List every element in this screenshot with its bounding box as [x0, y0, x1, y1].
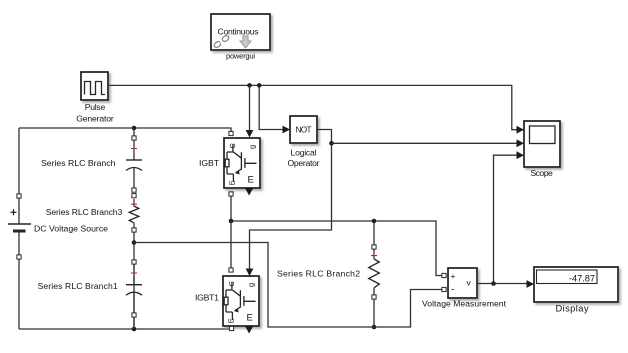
- svg-text:Series RLC Branch1: Series RLC Branch1: [38, 281, 118, 291]
- Voltage Measurement block: [448, 268, 477, 298]
- arrowhead IGBT m output: [245, 189, 253, 196]
- junction top of Series RLC Branch: [132, 126, 137, 131]
- arrowhead scope in3: [517, 151, 525, 159]
- svg-text:NOT: NOT: [296, 125, 312, 134]
- port square IGBT emitter: [229, 192, 233, 196]
- svg-text:Series RLC Branch2: Series RLC Branch2: [277, 268, 360, 278]
- svg-text:Pulse: Pulse: [85, 102, 106, 112]
- svg-text:+: +: [451, 271, 456, 281]
- port square DC source -: [17, 255, 21, 259]
- wire pulse generator output to scope in1: [108, 85, 517, 129]
- wire VM output to scope in3: [494, 155, 518, 283]
- port square IGBT1 emitter: [229, 326, 233, 330]
- wire left rail upper: [18, 128, 20, 194]
- svg-text:DC Voltage Source: DC Voltage Source: [34, 223, 108, 233]
- wire NOT output down to IGBT1 gate: [250, 130, 332, 269]
- arrowhead IGBT1 gate: [246, 269, 254, 277]
- svg-text:E: E: [228, 180, 237, 185]
- arrowhead IGBT gate: [246, 130, 254, 138]
- svg-text:Series RLC Branch3: Series RLC Branch3: [46, 207, 123, 217]
- red plus Series RLC Branch: [131, 146, 137, 152]
- IGBT block U_IGBT: [224, 138, 260, 188]
- svg-text:g: g: [247, 283, 256, 287]
- svg-text:E: E: [227, 318, 236, 323]
- svg-text:IGBT: IGBT: [199, 158, 220, 168]
- Series RLC Branch (capacitor): [126, 128, 142, 192]
- junction VM output: [491, 281, 496, 286]
- Pulse Generator block: [81, 72, 108, 100]
- port square VM plus input: [442, 273, 446, 277]
- Scope block: [524, 121, 560, 167]
- svg-text:g: g: [248, 145, 257, 149]
- port square DC source +: [17, 194, 21, 198]
- junction NOT output to scope in2: [329, 141, 334, 146]
- wire to NOT input: [259, 85, 283, 129]
- svg-text:Operator: Operator: [288, 158, 320, 168]
- junction on pulse line feeding NOT: [257, 83, 262, 88]
- wire to IGBT gate: [249, 85, 251, 130]
- wire to scope in2: [332, 142, 518, 144]
- svg-text:E: E: [248, 175, 254, 186]
- NOT block (Logical Operator): [290, 116, 317, 143]
- wire IGBT emitter to IGBT1 collector: [230, 221, 232, 268]
- arrowhead NOT input: [283, 126, 291, 134]
- wire neutral net to VM minus: [134, 243, 442, 328]
- junction IGBT emitter net: [229, 219, 234, 224]
- wire left rail lower: [18, 259, 20, 329]
- wire bottom rail: [19, 328, 230, 330]
- svg-text:powergui: powergui: [226, 52, 255, 61]
- arrowhead scope in1: [517, 126, 525, 134]
- port square IGBT collector top: [229, 131, 233, 135]
- wire VM output to Display: [477, 283, 527, 285]
- red plus Series RLC Branch3: [131, 201, 137, 207]
- junction on pulse line feeding IGBT gate: [247, 83, 252, 88]
- Series RLC Branch2 (resistor): [369, 221, 380, 327]
- Series RLC Branch1 (capacitor): [126, 260, 142, 329]
- svg-text:E: E: [247, 313, 253, 324]
- junction neutral point: [132, 240, 137, 245]
- junction bottom of Series RLC Branch1: [132, 327, 137, 332]
- IGBT1 block U_IGBT1: [223, 276, 259, 326]
- red plus Series RLC Branch2: [371, 253, 377, 259]
- arrowhead IGBT1 m output: [245, 327, 253, 334]
- svg-text:IGBT1: IGBT1: [195, 292, 219, 302]
- Display block: [534, 267, 618, 302]
- DC Voltage Source battery: [8, 198, 31, 255]
- svg-text:-: -: [451, 285, 454, 296]
- svg-text:Display: Display: [556, 302, 589, 313]
- svg-text:Scope: Scope: [530, 168, 553, 178]
- arrowhead scope in2: [517, 139, 525, 147]
- Series RLC Branch3 (resistor): [129, 194, 139, 329]
- junction Series RLC Branch2 bottom: [372, 325, 377, 330]
- port square VM minus input: [442, 287, 446, 291]
- svg-text:Series RLC Branch: Series RLC Branch: [41, 158, 116, 168]
- svg-text:Logical: Logical: [291, 147, 317, 157]
- svg-text:Voltage Measurement: Voltage Measurement: [422, 299, 507, 309]
- powergui U_powergui: [211, 14, 270, 50]
- wire IGBT emitter net to VM plus: [231, 196, 442, 276]
- svg-text:-47.87: -47.87: [569, 274, 595, 284]
- red plus Series RLC Branch1: [131, 270, 137, 276]
- port square IGBT1 collector: [229, 268, 233, 272]
- svg-text:Generator: Generator: [76, 113, 114, 123]
- wire top-left net: left rail top to IGBT collector: [19, 128, 231, 131]
- svg-text:Continuous: Continuous: [218, 27, 259, 37]
- arrowhead Display input: [527, 280, 535, 288]
- junction Series RLC Branch2 top: [372, 219, 377, 224]
